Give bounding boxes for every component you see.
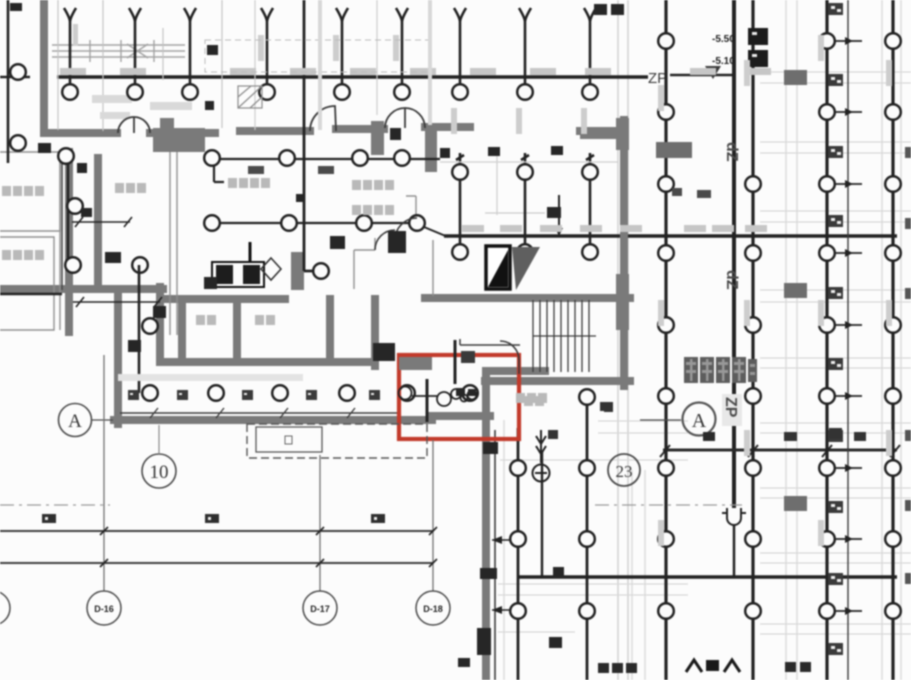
wire: bottom horizontal line y=531 bbox=[0, 530, 433, 532]
component: elevator shaft with triangle bbox=[486, 246, 540, 290]
wire: small arrows to wall bottom garage bbox=[492, 536, 510, 614]
wire: faint dashed canopy above building bbox=[205, 40, 430, 72]
svg-text:-5.50: -5.50 bbox=[712, 34, 735, 45]
wire: top horizontal feeder ZP line y=77 bbox=[57, 75, 648, 79]
wire: third row line y=223 with circles bbox=[205, 222, 420, 224]
wire: dim arrow y=222 bbox=[72, 217, 132, 227]
node: grid bubble D-18 bbox=[416, 591, 450, 625]
wire: black underline left wall bbox=[0, 293, 62, 295]
wire: vertical x=542 stub to feeder bbox=[541, 452, 543, 577]
node: dimension number blobs above y=531 bbox=[42, 514, 385, 523]
svg-text:D-17: D-17 bbox=[310, 604, 330, 614]
svg-text:dZ: dZ bbox=[723, 270, 740, 290]
wire: light lines below building garage bbox=[498, 420, 688, 680]
svg-text:ZP: ZP bbox=[648, 70, 667, 87]
wire: riser lower continuation to junction bbox=[733, 524, 736, 577]
wire: thin light verticals top-left bbox=[58, 0, 222, 131]
component: stair treads bbox=[533, 300, 596, 372]
node: light label bar next to line x=70 bbox=[73, 24, 78, 46]
wire: corridor dim line y=413 bbox=[120, 408, 400, 418]
wall: top-T pilaster blocks bbox=[153, 118, 629, 330]
component: door arc unit B entry bbox=[375, 218, 417, 250]
node: grid bubble A right bbox=[640, 403, 716, 442]
wire: circuit vertical x=666 bbox=[664, 0, 667, 680]
node: grid bubble 10 bbox=[142, 425, 176, 488]
wire: left circuit x=68 bbox=[67, 158, 69, 265]
svg-text:A: A bbox=[692, 410, 707, 432]
node: small dim texts 1700 bbox=[248, 166, 711, 198]
component: double door arcs entry 3 bbox=[385, 108, 425, 128]
node: red highlight rectangle bbox=[399, 355, 519, 439]
component: double door arcs entry 1 bbox=[118, 117, 150, 133]
wire: thin vertical x=848 bbox=[847, 0, 849, 680]
component: gray equipment boxes right garage bbox=[656, 70, 807, 511]
node: smoke detector circles column x=666 bbox=[658, 33, 674, 619]
wire: thin dark line beside left wall bbox=[61, 155, 63, 290]
node: elevation labels -5.50 / -5.10 bbox=[712, 28, 768, 67]
node: dim glyphs right area bbox=[548, 402, 866, 441]
node: grid bubble D-16 bbox=[87, 591, 121, 625]
wall: small room wall chunk inside red box bbox=[399, 357, 432, 370]
svg-text:-5.10: -5.10 bbox=[712, 56, 735, 67]
wire: light canopy verticals bbox=[320, 0, 430, 130]
node: riser fork symbol bbox=[722, 508, 746, 525]
wire: door arc stair hall bbox=[500, 341, 519, 374]
node: circled minus device bbox=[533, 430, 550, 482]
node: circles at y=92 bbox=[62, 84, 598, 100]
component: door arc entry 2 bbox=[310, 106, 336, 131]
wire: long vertical x=304 bbox=[304, 0, 330, 271]
ground: drain triangle symbol bbox=[705, 66, 721, 79]
node: smoke detector circles column x=893 bbox=[885, 33, 901, 619]
node: smoke detector circles column x=753 bbox=[745, 176, 761, 619]
node: corridor lamp circles y=393 bbox=[142, 385, 478, 401]
wire: bottom horizontal feeder y=577 bbox=[518, 575, 897, 579]
node: smoke detector circles column x=518 bbox=[510, 460, 526, 619]
wire: dim feeder y=450 with ticks bbox=[660, 445, 900, 457]
node: tick marks at line crossings bbox=[100, 527, 437, 567]
wire: grid drop lines to bubbles bbox=[104, 355, 433, 591]
node: ramp text blobs bottom bbox=[598, 662, 811, 673]
node: grid bubble D-17 bbox=[303, 591, 337, 625]
node: circles at y=172 and y=252 bbox=[452, 164, 598, 260]
node: corridor dark label blobs bbox=[128, 390, 380, 400]
node: grid bubble 23 bbox=[608, 454, 640, 486]
node: faint DN150 text smudges along feeder bbox=[60, 68, 771, 232]
svg-text:ZP: ZP bbox=[722, 397, 739, 418]
component: duct shaft boxes with X bbox=[212, 242, 281, 287]
wire: apartment interior thin walls bbox=[0, 152, 433, 335]
wire: circuit continuations to y=252 circles bbox=[456, 153, 594, 245]
wire: second row line y=158 with circles bbox=[212, 159, 440, 182]
node: partial grid bubble left edge bbox=[0, 591, 10, 625]
svg-text:A: A bbox=[68, 411, 82, 432]
wire: vertical dZ riser x=734 bbox=[732, 0, 736, 508]
svg-text:10: 10 bbox=[150, 462, 169, 483]
node: ramp chevrons bottom bbox=[686, 660, 740, 672]
svg-text:23: 23 bbox=[616, 462, 633, 481]
wire: feeder continues to dZ riser bbox=[670, 74, 733, 77]
wire: light line y=162 across units bbox=[440, 161, 618, 163]
wire: garage parking stall light lines right bbox=[760, 0, 911, 680]
node: smoke detector circles column x=827 bbox=[819, 33, 835, 619]
node: faint watermark text in corridor bbox=[118, 374, 303, 381]
node: grid bubble A left bbox=[59, 404, 114, 437]
component: dark door/equipment glyphs scattered bbox=[10, 3, 624, 667]
node: circles on left edge line bbox=[10, 64, 26, 80]
wall: building outer and inner walls gray bbox=[0, 0, 630, 680]
component: hatched block upper left bbox=[238, 86, 262, 108]
wire: vertical line x=8 left edge bbox=[0, 0, 30, 163]
wire: slope connector from circle to feeder bbox=[424, 227, 448, 237]
svg-text:D-18: D-18 bbox=[423, 604, 443, 614]
wire: dim arrow y=302 bbox=[73, 297, 162, 307]
wire: black frame lines red box bbox=[427, 340, 455, 422]
node: faint clutter upper apartment bbox=[92, 95, 192, 119]
node: faint room label text blobs bbox=[2, 178, 547, 406]
node: dark door panel in red box bbox=[461, 351, 475, 363]
wire: circuit vertical x=827 bbox=[825, 0, 828, 680]
node: smoke detector circles column x=587 bbox=[579, 389, 595, 619]
wire: mid horizontal feeder y=236 bbox=[444, 234, 897, 238]
wire: thin vertical x=495 garage left bbox=[494, 430, 496, 680]
wire: circuit vertical x=753 bbox=[751, 0, 754, 680]
component: dashed canopy outline below corridor bbox=[247, 424, 427, 458]
wire: bottom horizontal line y=563 bbox=[0, 562, 433, 564]
node: circles left circuit bbox=[58, 148, 74, 164]
node: right edge partial glyphs bbox=[905, 147, 911, 584]
wire: fork-top circuit drops with circles y=92 bbox=[64, 8, 596, 85]
node: faint vertical circuit labels bbox=[258, 35, 892, 546]
wire: garage boundary light double line bbox=[618, 0, 628, 680]
wire: drop line x=559 with arrow to feeder bbox=[558, 195, 560, 230]
wire: circuit vertical x=518 lower bbox=[517, 428, 520, 680]
node: fire compartment text 防火分区2 bbox=[684, 357, 757, 383]
wire: tick arrows from x=827 circles to x=848 bbox=[836, 37, 862, 615]
component: entrance canopy beam top-left bbox=[52, 40, 185, 62]
svg-text:dZ: dZ bbox=[723, 142, 740, 162]
component: junction box circle chain in red box bbox=[399, 387, 477, 407]
wire: circuit vertical x=587 lower bbox=[586, 397, 589, 680]
wire: circuit vertical x=893 bbox=[891, 0, 894, 680]
node: dark junction glyphs on column x=827 bbox=[828, 3, 843, 655]
node: faint box behind ZP label bbox=[722, 394, 742, 426]
wire: stair arrow bbox=[460, 339, 520, 345]
wire: feeder down corridor x=139 bbox=[138, 265, 141, 393]
node: circle at corner x=304 line bbox=[313, 263, 329, 279]
wire: faint interior partition lines bbox=[255, 0, 545, 215]
node: rotated dZ labels on riser bbox=[722, 142, 740, 418]
svg-text:D-16: D-16 bbox=[94, 604, 114, 614]
wire: dash-dot datum line y=505 bbox=[0, 504, 742, 506]
